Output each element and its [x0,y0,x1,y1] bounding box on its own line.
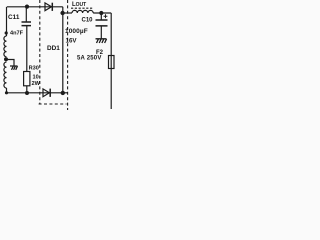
resistor R30 body [24,72,30,86]
node top-left junction [25,5,29,9]
node cathode bus top [60,11,64,15]
svg-text:C10: C10 [82,18,94,24]
DD1 box left dashed [39,0,41,104]
svg-text:2W: 2W [32,81,41,87]
capacitor C10 polarized [100,13,102,39]
inductor LOUT core dashed [71,7,94,9]
node C10 junction [99,11,103,15]
diode DD1-b bottom [43,89,49,97]
wire stub bottom right [63,92,68,94]
node cathode bus bottom [61,91,65,95]
node center-tap junction [4,57,8,61]
svg-text:5A 250V: 5A 250V [77,56,102,62]
capacitor C11 [25,7,28,72]
svg-text:LOUT: LOUT [72,2,86,8]
svg-text:DD1: DD1 [47,45,60,52]
plus sign C10 [104,14,108,18]
wire to output inductor [63,12,72,14]
DD1 box bottom dashed [39,103,67,105]
node bottom-left junction [5,91,8,94]
wire LOUT to output [93,12,111,14]
node resistor-bottom junction [25,91,29,95]
diode DD1-a top [45,3,52,11]
ground chassis left [10,66,18,70]
wire top rail [7,6,63,8]
wire diode output bend [62,7,64,13]
wire cathode bus vertical [62,13,64,93]
svg-text:4n7F: 4n7F [10,30,24,36]
wire left vertical [6,7,8,36]
wire resistor to bottom rail [26,86,28,93]
svg-text:10: 10 [33,75,39,81]
svg-text:C11: C11 [8,14,20,21]
svg-text:16V: 16V [66,37,78,44]
DD1 box right dashed [67,0,69,110]
fuse F2 body [109,56,115,69]
wire center-tap to ground [6,60,14,66]
svg-text:1000µF: 1000µF [65,28,88,35]
svg-text:R30: R30 [29,65,39,71]
inductor T1 winding upper section [4,36,7,57]
inductor T1 winding lower section [4,62,7,88]
inductor LOUT [72,10,93,13]
node winding-top dot [5,31,8,34]
wire winding bottom [6,88,8,93]
ground chassis under C10 [96,39,107,43]
wire output down right edge [110,13,112,109]
wire bottom rail [7,92,63,94]
